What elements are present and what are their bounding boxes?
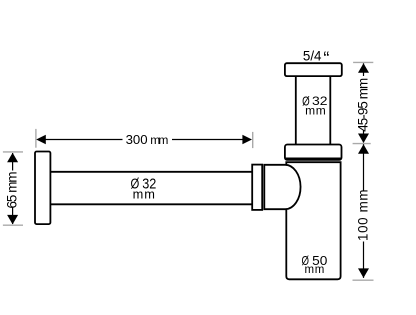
node arrow up — [358, 144, 369, 154]
wire extension line left — [35, 129, 37, 148]
wire extension line right — [252, 132, 254, 148]
svg-text:100 mm: 100 mm — [355, 189, 370, 241]
wire extension line mid — [353, 143, 371, 145]
node wall flange — [35, 152, 50, 225]
node arrow up — [358, 63, 369, 73]
dimension 45-95 mm — [353, 62, 374, 143]
node trap body — [286, 162, 340, 279]
node collar nut — [285, 145, 342, 160]
wire extension line bottom — [353, 279, 374, 281]
wire extension line top — [353, 61, 373, 63]
dimension 65 mm — [3, 152, 23, 225]
node arrow down — [7, 215, 18, 225]
dimension 300 mm — [36, 129, 253, 148]
node elbow dome — [264, 165, 300, 209]
wire extension line top — [3, 151, 23, 153]
svg-text:65 mm: 65 mm — [5, 171, 20, 208]
wire dim line — [363, 63, 365, 76]
svg-text:45-95 mm: 45-95 mm — [355, 78, 370, 132]
wire horizontal pipe outline — [49, 172, 253, 205]
svg-text:300: 300 — [126, 132, 148, 147]
dimension 100 mm — [353, 144, 374, 280]
node arrow left — [36, 135, 46, 145]
svg-text:mm: mm — [305, 264, 325, 276]
node arrow up — [7, 153, 18, 163]
wire riser pipe outline — [296, 75, 331, 146]
node top flange — [285, 63, 342, 76]
wire dim line — [12, 153, 14, 171]
node arrow down — [358, 268, 369, 278]
svg-text:mm: mm — [305, 104, 326, 118]
svg-text:mm: mm — [133, 187, 155, 202]
wire collar inner line — [285, 157, 342, 159]
wire dim line — [363, 144, 365, 190]
wire dim line — [40, 139, 123, 141]
node arrow down — [358, 134, 369, 144]
wire extension line bottom — [3, 224, 23, 226]
svg-text:mm: mm — [150, 133, 168, 147]
node compression nut — [252, 165, 262, 210]
node arrow right — [242, 135, 252, 145]
